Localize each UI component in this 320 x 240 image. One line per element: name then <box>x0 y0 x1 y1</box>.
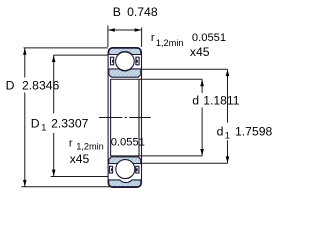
ball bottom <box>116 160 135 179</box>
svg-text:x45: x45 <box>190 45 210 59</box>
dimension D arrow bottom <box>23 180 27 187</box>
cage slot bottom-left <box>109 166 112 173</box>
svg-text:0.0551: 0.0551 <box>111 137 145 149</box>
svg-text:2.3307: 2.3307 <box>51 117 88 131</box>
centerline axis <box>99 117 151 119</box>
dimension B arrow left <box>108 28 115 32</box>
dimension B arrow right <box>135 28 142 32</box>
inner ring top cross-section <box>109 69 141 77</box>
dimension D arrow top <box>23 48 27 55</box>
outer ring bottom cross-section <box>109 180 141 187</box>
svg-text:r: r <box>151 32 155 44</box>
bore chamfer line right <box>138 79 140 156</box>
svg-text:d: d <box>217 125 224 139</box>
dimension B extension lines <box>108 26 142 48</box>
dimension D extension lines <box>21 48 110 187</box>
outer ring top cross-section <box>109 48 141 54</box>
bore chamfer line left <box>110 79 112 156</box>
dimension d1 extension lines <box>142 69 228 163</box>
svg-text:0.0551: 0.0551 <box>192 32 226 44</box>
svg-text:1.1811: 1.1811 <box>203 94 240 108</box>
cage slot top-left <box>111 57 114 65</box>
svg-text:r: r <box>69 137 73 149</box>
cage rivet top-right <box>136 60 138 63</box>
cage rivet bottom-left <box>111 168 113 171</box>
svg-text:D: D <box>31 117 40 131</box>
dimension d extension lines (bore lines) <box>111 79 203 156</box>
dimension D1 arrow top <box>52 55 56 62</box>
bearing outer boundary (rings silhouette) <box>108 48 141 188</box>
dimension d1 line <box>227 69 229 163</box>
svg-text:1: 1 <box>41 123 46 133</box>
dimension d arrow bottom <box>200 149 204 156</box>
dimension D line <box>24 48 26 187</box>
dimension D1 extension lines <box>51 55 108 176</box>
dimension d line <box>201 79 203 156</box>
inner ring bottom cross-section <box>109 157 141 164</box>
dimension d1 arrow bottom <box>226 156 230 163</box>
svg-text:D: D <box>6 79 15 93</box>
dimension B line <box>108 29 142 31</box>
cage slot bottom-right <box>136 166 139 173</box>
cage slot top-right <box>136 57 139 65</box>
dimension d arrow top <box>200 80 204 87</box>
svg-text:1.7598: 1.7598 <box>235 125 272 139</box>
svg-text:1: 1 <box>225 131 230 141</box>
dimension D1 line <box>53 55 55 176</box>
svg-text:1,2min: 1,2min <box>76 142 104 152</box>
ball top <box>116 52 135 71</box>
svg-text:d: d <box>192 94 199 108</box>
dimension d1 arrow top <box>226 70 230 77</box>
cage rivet bottom-right <box>136 168 138 171</box>
svg-text:x45: x45 <box>70 152 90 166</box>
cage rivet top-left <box>112 60 114 63</box>
svg-text:1,2min: 1,2min <box>156 38 184 48</box>
svg-text:B: B <box>113 5 121 19</box>
dimension D1 arrow bottom <box>52 170 56 177</box>
svg-text:0.748: 0.748 <box>127 5 158 19</box>
